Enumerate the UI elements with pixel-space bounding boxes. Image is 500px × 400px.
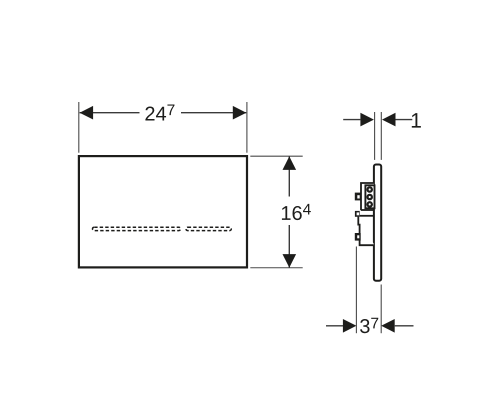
dimension 16-4 arrow down	[283, 254, 297, 268]
side view mechanism divider line lower	[360, 215, 375, 217]
dimension 24-7 arrow right	[233, 106, 247, 120]
side view mechanism divider line upper	[361, 209, 375, 211]
side view plate profile	[374, 165, 381, 281]
dashed slot right segment	[186, 227, 231, 230]
dimension 3-7 dimension line right	[395, 325, 414, 327]
dimension 24-7 arrow left	[80, 106, 94, 120]
dimension 16-4 dimension line	[276, 156, 309, 267]
side view screw circle 1	[368, 187, 372, 191]
dimension 3-7 extension line left	[355, 247, 357, 334]
side view screw circle 2	[368, 195, 372, 199]
dimension 24-7 extension line right	[246, 102, 248, 153]
dimension 3-7 label	[360, 318, 378, 333]
dimension 1 arrow left	[360, 113, 374, 127]
side view mechanism block body	[358, 183, 374, 245]
dimension 1 dimension line right	[396, 119, 413, 121]
dimension 3-7 arrow left	[343, 319, 357, 333]
dimension 16-4 extension line top	[250, 155, 302, 157]
dimension 3-7 extension line right	[380, 285, 382, 334]
dimension 1 extension line left	[374, 112, 376, 160]
side view mounting clip lower	[355, 233, 361, 241]
side view mechanism sub-panel	[365, 185, 374, 208]
dimension 16-4 label	[282, 204, 311, 220]
dimension 3-7 arrow right	[381, 319, 395, 333]
dimension 1 dimension line left	[343, 119, 360, 121]
side view mechanism lip box	[355, 211, 360, 217]
dimension 16-4 arrow up	[283, 156, 297, 170]
dimension 1 label	[412, 113, 421, 127]
side view screw circle 3	[368, 202, 372, 206]
dimension 24-7 label	[145, 104, 174, 120]
dimension 3-7 dimension line left	[326, 325, 344, 327]
dimension 24-7 extension line left	[78, 102, 80, 153]
side view mounting clip upper	[355, 193, 362, 201]
dimension 16-4 extension line bottom	[250, 267, 302, 269]
dimension 1 extension line right	[380, 112, 382, 160]
dimension 24-7 dimension line	[80, 97, 247, 125]
dashed slot left segment	[93, 227, 181, 230]
front view plate outline	[79, 156, 247, 267]
dimension 1 arrow right	[382, 113, 396, 127]
